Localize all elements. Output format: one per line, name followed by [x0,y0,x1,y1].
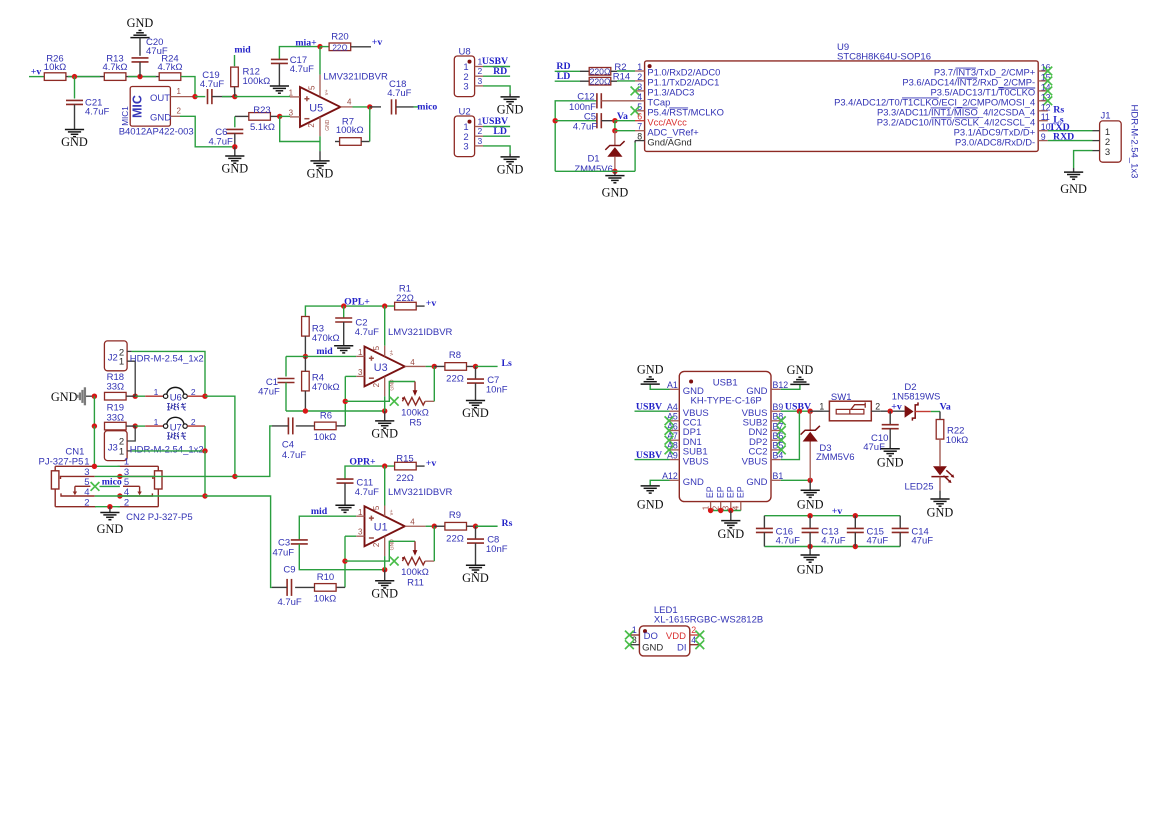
net label mid [311,506,328,517]
pin 7 [635,130,645,132]
capacitor C20 [132,37,168,62]
svg-text:EP: EP [735,486,745,498]
svg-text:4: 4 [347,98,352,107]
capacitor C8 [467,526,508,555]
pin 2 name [647,77,719,88]
junction [553,118,558,123]
wire [235,426,272,477]
wire [939,412,941,421]
svg-text:10kΩ: 10kΩ [44,62,66,73]
wire [74,77,76,99]
wire [1073,168,1075,172]
svg-text:3: 3 [632,635,637,645]
pin 1 [1093,130,1100,132]
wire [132,351,205,396]
ground [797,547,824,577]
svg-text:2: 2 [84,497,89,508]
wire [555,80,580,82]
svg-text:GND: GND [371,586,398,600]
junction [202,493,207,498]
net label mico [417,101,437,112]
svg-text:2: 2 [875,402,880,412]
junction [612,128,617,133]
junction [232,474,237,479]
wire [764,515,900,517]
junction [708,508,713,513]
label XL-1615RGBC-WS2812B [654,615,763,626]
svg-text:47uF: 47uF [911,536,933,547]
svg-text:3: 3 [1105,147,1110,158]
svg-text:5: 5 [307,85,316,90]
no-connect [631,106,640,115]
junction [92,464,97,469]
svg-text:+v: +v [31,67,42,78]
svg-text:VDD: VDD [666,631,686,642]
pin 8 number [637,132,642,142]
no-connect [777,446,786,455]
label CN1 [65,446,84,457]
pin B12 name [746,386,767,397]
ground [221,156,248,176]
diode LED25 [904,466,954,493]
resistor R15 [395,454,417,484]
capacitor C10 [863,411,898,453]
svg-text:LMV321IDBVR: LMV321IDBVR [323,71,388,82]
svg-text:GND: GND [390,539,396,551]
wire [434,525,445,527]
svg-text:GND: GND [462,571,489,585]
svg-text:GND: GND [497,163,524,177]
ground [797,480,824,511]
wire [299,544,384,570]
svg-text:J2: J2 [108,352,118,363]
pin A1 [667,380,679,390]
wire [205,496,272,587]
wire [416,465,424,467]
no-connect [777,436,786,445]
svg-text:GND: GND [325,119,331,131]
wire [320,46,330,48]
pin 1 [630,625,640,635]
capacitor C5 [573,112,601,133]
wire [555,120,597,122]
svg-text:22Ω: 22Ω [446,374,464,385]
resistor R13 [102,54,127,81]
pin 2 [1093,140,1100,142]
svg-text:GND: GND [127,16,154,30]
junction [202,394,207,399]
svg-text:LED25: LED25 [904,482,933,493]
wire [270,115,279,117]
pin 1 [356,348,364,357]
junction [382,303,387,308]
svg-text:5.1kΩ: 5.1kΩ [250,122,275,133]
pin A5 [667,412,679,422]
pin 2 [307,117,331,151]
wire [95,475,120,477]
wire [344,536,346,587]
wire [195,96,205,98]
resistor R4 [302,371,340,393]
svg-text:47uF: 47uF [863,442,885,453]
pin 11 name [877,116,1035,127]
wire [345,375,356,377]
wire [234,147,236,156]
ground [637,486,664,512]
diode D2 [892,382,941,421]
svg-text:4.7kΩ: 4.7kΩ [157,62,182,73]
svg-text:10kΩ: 10kΩ [946,435,968,446]
svg-text:GND: GND [61,135,88,149]
pin 4 [690,635,700,645]
capacitor C21 [66,97,109,117]
svg-text:100kΩ: 100kΩ [336,125,364,136]
pin 9 [1038,140,1048,142]
net label USBV [785,402,811,413]
net label OPR+ [349,456,376,467]
wire [416,305,424,307]
wire [139,38,141,56]
net label Rs [502,518,513,529]
label LMV321IDBVR [388,327,453,338]
wire [204,451,206,497]
svg-text:SW1: SW1 [831,392,852,403]
no-connect [665,426,674,435]
net label LD [557,71,571,82]
resistor R9 [445,510,467,545]
wire [475,543,477,565]
svg-text:2: 2 [691,625,696,635]
pin 16 number [1041,63,1051,73]
svg-text:ZMM5V6: ZMM5V6 [574,164,613,175]
pin 2 number [637,72,642,82]
svg-text:R9: R9 [449,510,461,521]
svg-text:R8: R8 [449,350,461,361]
svg-text:R6: R6 [320,411,332,422]
svg-text:GND: GND [390,379,396,391]
svg-text:GND: GND [877,455,904,469]
wire [93,396,95,426]
wire [212,96,235,98]
wire [476,365,498,367]
svg-text:CN2 PJ-327-P5: CN2 PJ-327-P5 [126,512,193,523]
net label Va [940,401,951,412]
junction [202,448,207,453]
wire [764,546,900,548]
wire [345,535,356,537]
connector U2 [454,106,474,156]
svg-text:4.7uF: 4.7uF [200,79,224,90]
pin 3 [475,136,483,146]
svg-text:1: 1 [358,348,363,357]
wire [601,100,635,102]
pin 8 name [647,136,691,147]
wire [94,465,120,467]
svg-text:22Ω: 22Ω [396,293,414,304]
wire [285,356,287,376]
pin 4 [405,358,426,367]
pin 13 number [1041,92,1051,102]
svg-text:mid: mid [234,45,251,56]
pin 3 [630,635,640,645]
wire [509,153,511,157]
resistor R18 [105,372,127,400]
svg-text:GND: GND [497,103,524,117]
svg-text:RD: RD [493,66,507,77]
wire [483,75,510,77]
svg-text:22Ω: 22Ω [332,43,347,52]
svg-text:Ls: Ls [502,358,513,369]
wire [139,62,141,77]
svg-text:1: 1 [84,456,89,467]
capacitor C12 [569,92,601,114]
LED LED1 [639,626,689,656]
wire [483,135,510,137]
wire [634,141,636,143]
net label USBV [636,402,662,413]
resistor R23 [249,105,275,133]
pin EP4 [732,486,746,510]
net label +v [832,506,843,517]
junction [192,94,197,99]
ground [1060,172,1087,196]
no-connect [777,426,786,435]
wire [336,586,345,588]
svg-text:+v: +v [426,458,437,469]
label CN2 PJ-327-P5 [126,512,193,523]
wire [126,76,159,78]
no-connect [695,640,704,649]
ground [61,130,88,150]
no-connect [625,640,634,649]
svg-text:OUT: OUT [150,93,170,104]
pin 2 [425,400,434,402]
svg-text:v+: v+ [389,509,395,515]
resistor R10 [314,572,336,604]
pin 3 [356,368,364,377]
svg-text:MIC: MIC [131,95,145,118]
junction [137,74,142,79]
wire [650,384,669,389]
wire [483,146,510,154]
svg-text:1: 1 [289,88,294,97]
svg-text:GND: GND [371,427,398,441]
pin 1 [823,410,830,412]
wire [467,525,476,527]
junction [853,544,858,549]
pin B9 name [742,408,768,419]
pin 11 number [1041,112,1050,122]
pin B8 name [743,418,768,429]
pin 3 [356,528,364,537]
junction [612,118,617,123]
net label mid [234,45,251,56]
op-amp U1 [365,506,405,546]
no-connect [777,416,786,425]
pin 1 number [637,62,642,72]
wire [426,365,435,367]
ground [334,346,353,353]
wire [426,525,435,527]
pin B4 name [742,456,768,467]
svg-text:Gnd/AGnd: Gnd/AGnd [647,136,691,147]
junction [808,478,813,483]
svg-text:10kΩ: 10kΩ [314,593,336,604]
wire [351,46,371,48]
svg-text:+v: +v [426,298,437,309]
pin A6 name [683,427,701,438]
svg-text:4.7uF: 4.7uF [282,450,306,461]
wire [433,366,435,401]
wire [299,516,356,540]
potentiometer R11 [401,541,429,588]
wire [580,80,589,82]
junction [808,409,813,414]
junction [92,423,97,428]
junction [853,513,858,518]
pin A7 [667,431,679,441]
net label Ls [1053,115,1064,126]
component MIC1 [119,87,194,138]
svg-text:U6: U6 [170,393,182,404]
svg-text:+v: +v [891,401,902,412]
wire [1048,130,1093,132]
ground [497,97,524,117]
pin 16 [1038,70,1048,72]
no-connect [665,436,674,445]
pin 2 [475,126,483,136]
svg-text:U7: U7 [170,422,182,433]
junction [303,354,308,359]
wire [615,130,635,132]
svg-text:470kΩ: 470kΩ [312,333,340,344]
wire [483,66,510,68]
svg-text:100kΩ: 100kΩ [243,76,271,87]
pin 5 [635,110,645,112]
svg-text:U5: U5 [309,102,323,114]
wire [880,410,904,412]
no-connect [665,416,674,425]
svg-text:GND: GND [97,522,124,536]
wire [635,410,670,412]
wire [931,411,940,413]
svg-text:4.7uF: 4.7uF [209,137,233,148]
wire [939,439,941,466]
ground [462,401,489,421]
pin 11 [1038,120,1048,122]
label LED1 [654,605,678,616]
svg-text:GND: GND [746,386,767,397]
resistor R1 [395,284,417,310]
wire [286,355,356,357]
svg-text:v+: v+ [389,350,395,356]
svg-text:3: 3 [289,108,294,117]
ground [127,16,154,38]
svg-text:2: 2 [372,382,381,387]
wire [615,120,635,122]
svg-text:EP: EP [725,486,735,498]
pin 2 [170,107,181,117]
svg-text:mico: mico [417,101,437,112]
resistor R2 [589,62,626,77]
junction [473,364,478,369]
diode D3 [801,411,855,480]
wire [580,70,589,72]
wire [434,365,445,367]
connector J1 [1100,110,1122,162]
wire [476,525,498,527]
junction [888,409,893,414]
junction [72,74,77,79]
svg-text:5: 5 [372,345,381,350]
net label Ls [502,358,513,369]
pin 3 number [637,82,642,92]
ground [637,363,664,385]
svg-text:2: 2 [372,542,381,547]
net label +v [426,458,437,469]
pin 1 [289,88,300,97]
pin 2 [127,350,132,352]
wire [781,411,800,459]
svg-text:220Ω: 220Ω [590,77,611,87]
net label TXD [1049,122,1070,133]
capacitor C18 [387,79,411,115]
wire [345,466,395,479]
svg-text:4.7uF: 4.7uF [290,64,314,75]
wire [278,63,280,86]
resistor R7 [336,116,364,145]
wire [483,86,510,94]
junction [133,423,138,428]
pin 3 [289,108,300,117]
junction [807,544,812,549]
svg-text:HDR-M-2.54_1x3: HDR-M-2.54_1x3 [1129,105,1140,179]
svg-text:2: 2 [478,66,483,76]
capacitor C15 [847,516,889,547]
svg-text:GND: GND [602,186,629,200]
svg-text:1: 1 [177,87,182,96]
svg-text:3: 3 [463,82,468,93]
svg-text:GND: GND [927,506,954,520]
svg-text:2: 2 [478,126,483,136]
pin 3 [1093,150,1100,152]
wire [279,47,320,59]
svg-text:J3: J3 [108,442,118,453]
no-connect [390,397,399,406]
potentiometer R5 [401,382,429,429]
pin 2 [475,66,483,76]
wire [361,141,369,143]
no-connect [1043,87,1052,96]
svg-text:4: 4 [84,487,89,498]
ground flag [51,387,95,405]
pin 5 number [637,102,642,112]
svg-text:GND: GND [307,167,334,181]
svg-text:22Ω: 22Ω [396,473,414,484]
capacitor C9 [277,565,301,609]
svg-text:GND: GND [462,406,489,420]
junction [92,394,97,399]
no-connect [631,87,640,96]
svg-text:C9: C9 [283,565,295,576]
wire [555,101,597,172]
capacitor C1 [258,377,294,398]
ground [335,505,354,512]
junction [341,303,346,308]
svg-text:3: 3 [358,528,363,537]
pin 5 name [647,107,724,118]
svg-text:GND: GND [787,363,814,377]
